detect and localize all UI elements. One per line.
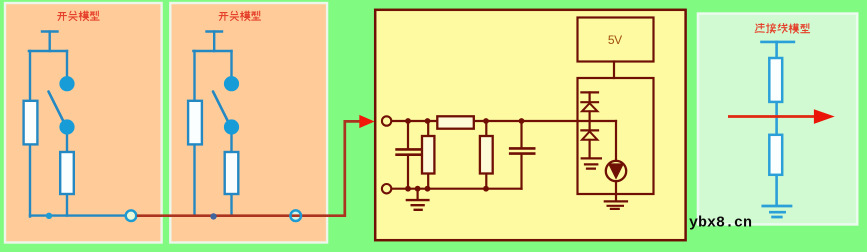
resistor R2 right panel [769,135,782,175]
switch contact upper panel2 [224,76,239,91]
resistor R1 panel2 [188,101,202,145]
antenna stem panel2 [213,32,215,52]
capacitor C1 plates [397,149,421,154]
wire left vertical lower [29,144,31,217]
wire bottom horizontal [30,214,126,216]
switch blade panel2 [213,92,228,122]
wire top horizontal [29,50,67,52]
wire R2 to bottom panel2 [230,194,232,215]
5V source box [578,18,654,62]
ground right panel bars [763,206,791,217]
terminal input bottom [382,184,391,193]
wire right vertical to switch [66,51,68,77]
svg-text:ybx8.cn: ybx8.cn [689,215,752,232]
capacitor C2 bottom lead [520,155,522,189]
wire left vertical lower panel2 [193,144,195,215]
wire between resistors [775,102,778,135]
ground G1 bars [407,200,429,210]
wire stem top [775,42,778,58]
wire left vertical upper panel2 [193,51,195,101]
capacitor C1 bottom lead [407,156,409,189]
resistor R2 panel1 [60,152,74,194]
resistor R2 vertical [422,136,434,174]
diode D1 triangle [582,103,597,111]
terminal node panel2 ring [290,210,301,221]
wire input bottom [391,188,521,190]
resistor R2 leads [427,121,429,189]
diode D2 bottom lead [588,140,590,157]
ground G3 bars [605,201,627,209]
ground G1 lead [417,189,419,199]
junction dot panel1 [46,213,52,219]
diode clamp box [578,78,654,194]
label switch model 2 [219,11,260,20]
arrowhead into converter [359,115,374,128]
panel: converter (yellow) [375,10,685,240]
terminal node panel1 [126,210,137,221]
wire 5V box to diode box [613,62,615,79]
diode D1 tick bar [581,91,598,93]
antenna stem [49,32,51,52]
antenna T bar [42,30,58,32]
diode D1 lead [588,92,590,102]
ground G2 bars [582,158,601,168]
terminal input top [382,116,391,125]
arrow line right panel [728,115,816,118]
diode D2 top lead [588,121,590,130]
switch blade [49,92,64,122]
arrowhead right panel [814,109,835,124]
junction dot panel2 [210,213,216,219]
diode D1 cathode bar [581,101,598,103]
panel: switch model 2 [170,3,327,243]
current source circle [606,161,626,181]
resistor R3 leads [485,121,487,189]
current source arrow [608,163,624,179]
wire input top [391,120,616,122]
wire red main from panel1 node through panel2 up to converter [137,121,360,215]
diode D1 bottom lead [588,111,590,120]
wire R2 to bottom [66,194,68,216]
label switch model 1 [58,11,99,20]
switch contact upper [59,76,74,91]
diode D2 cathode bar [581,129,598,131]
antenna T bar panel2 [207,30,223,32]
panel: connection line model [698,14,857,225]
terminal node panel2 fill [290,210,301,221]
wire left vertical upper [29,51,31,101]
wire resistor2 to ground [775,175,778,205]
resistor R1 panel1 [24,101,38,145]
label connection line model [755,24,809,34]
switch contact lower [59,119,74,134]
switch contact lower panel2 [224,119,239,134]
wire top horizontal panel2 [193,50,231,52]
capacitor C1 top lead [407,121,409,148]
resistor R2 panel2 [225,152,239,194]
current source lead top [615,121,617,161]
svg-text:5V: 5V [608,33,622,47]
diode D2 triangle [582,132,597,140]
resistor R1 right panel [769,58,782,102]
current source lead bottom [615,181,617,200]
junction dots bottom wire [405,186,411,192]
capacitor C2 plates [510,148,534,153]
terminal T bar right panel [762,41,794,44]
resistor R1 horizontal [437,116,474,128]
capacitor C2 top lead [520,121,522,147]
resistor R3 vertical [480,136,493,174]
wire switch to resistor R2 [66,134,68,153]
wire switch to resistor panel2 [230,134,232,153]
wire right vertical to switch panel2 [230,51,232,77]
panel: switch model 1 [5,3,162,243]
junction dots top wire [405,118,411,124]
